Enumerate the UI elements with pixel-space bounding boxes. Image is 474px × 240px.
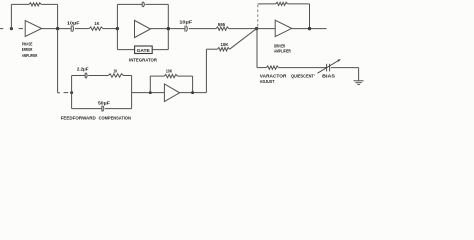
resistor driver feedback <box>276 2 288 5</box>
label 50uF <box>98 100 110 105</box>
label 10uF <box>67 20 80 25</box>
label 10uF 2 <box>179 20 192 25</box>
label PHASE ERROR AMPLIFIER <box>22 41 38 58</box>
varactor trimmer plates <box>327 64 330 72</box>
wire 555 to node <box>229 28 257 30</box>
wire cap to 1K <box>75 28 89 30</box>
wire feedback right vertical <box>57 4 59 28</box>
node driver output junction <box>308 27 311 30</box>
svg-text:AMPLIFIER: AMPLIFIER <box>274 48 291 53</box>
svg-text:ADJUST: ADJUST <box>260 79 275 84</box>
label FEEDFORWARD COMPENSATION <box>61 115 131 120</box>
resistor phase-amp feedback <box>29 3 41 6</box>
label 10K summing <box>221 42 230 47</box>
wire ff top branch left <box>72 75 85 77</box>
wire feedback left vertical <box>10 4 12 28</box>
wire input dash left edge <box>0 28 3 30</box>
resistor 2K R5 <box>108 74 123 77</box>
capacitor 10uF coupling <box>71 26 73 32</box>
wire phase amp output <box>42 28 71 30</box>
wire integrator gate-loop left vertical <box>116 29 118 50</box>
wire ff-output vertical up <box>205 49 207 92</box>
svg-text:555: 555 <box>218 22 226 27</box>
wire diagonal 10K to node <box>230 29 257 50</box>
svg-text:INTEGRATOR: INTEGRATOR <box>129 57 158 62</box>
resistor 10K summing R3 <box>217 48 229 51</box>
svg-text:10μF: 10μF <box>179 20 192 25</box>
label INTEGRATOR <box>129 57 158 62</box>
label 555 <box>218 22 226 27</box>
wire ff feedback left vertical <box>149 76 151 93</box>
wire phase-out vertical down <box>57 29 59 93</box>
op-amp integrator U2 <box>135 20 151 37</box>
wire ff feedback top left <box>150 75 164 77</box>
op-amp driver amplifier U3 <box>275 20 292 36</box>
wire driver feedback top right <box>288 3 310 5</box>
node summing junction <box>255 27 258 30</box>
op-amp phase error amplifier U1 <box>25 21 41 37</box>
label VARACTOR QUIESCENT BIAS <box>260 74 335 79</box>
node ff network input junction <box>70 91 73 94</box>
wire integrator output <box>150 28 184 30</box>
wire feedback top left <box>11 3 29 5</box>
wire ff feedback right vertical <box>192 76 194 93</box>
label 1K <box>94 21 100 26</box>
node phase amp input junction <box>10 27 13 30</box>
svg-text:VARACTOR: VARACTOR <box>260 74 287 79</box>
svg-text:10μF: 10μF <box>67 20 80 25</box>
wire ff bottom branch right <box>105 108 132 110</box>
svg-text:10K: 10K <box>166 69 172 74</box>
label DRIVER AMPLIFIER <box>274 43 291 53</box>
wire integrator cap-loop top right <box>145 3 168 5</box>
wire ff input corner stub <box>58 92 60 94</box>
wire bias resistor to varactor <box>279 67 327 69</box>
svg-text:1K: 1K <box>94 21 100 26</box>
svg-text:FEEDFORWARD: FEEDFORWARD <box>61 115 97 120</box>
capacitor integrator feedback <box>142 2 144 7</box>
wire ff amp output <box>180 92 207 94</box>
wire 1K to integrator <box>103 28 117 30</box>
wire driver feedback left vertical dashed <box>257 4 259 27</box>
label 2.2uF <box>77 66 89 71</box>
wire corner to 10K <box>206 48 217 50</box>
wire bias vertical from node <box>256 29 258 68</box>
wire integrator cap-loop top left <box>117 3 141 5</box>
op-amp feedforward U4 <box>164 84 179 102</box>
wire box to gate-loop right <box>152 49 168 51</box>
gate box GATE <box>135 46 153 54</box>
svg-text:50μF: 50μF <box>98 100 110 105</box>
label ADJUST <box>260 79 275 84</box>
wire 2K to rect right <box>123 75 131 77</box>
resistor bias R4 <box>266 66 278 69</box>
resistor 10K ff feedback R6 <box>164 74 177 77</box>
wire bias corner to resistor <box>257 67 266 69</box>
wire integrator gate-loop right vertical <box>167 29 169 50</box>
wire ff input dash <box>64 92 69 94</box>
svg-text:ERROR: ERROR <box>22 47 33 52</box>
ground symbol <box>354 81 364 85</box>
capacitor 2.2uF <box>85 73 87 79</box>
wire driver feedback right vertical <box>309 4 311 29</box>
wire ff rect right vertical <box>131 76 133 109</box>
node integrator output junction <box>167 27 170 30</box>
svg-text:10K: 10K <box>221 42 230 47</box>
svg-text:2K: 2K <box>114 68 118 73</box>
label 2K <box>114 68 118 73</box>
wire input dash segment <box>19 28 23 30</box>
label 10K ff <box>166 69 172 74</box>
resistor 1K R1 <box>89 27 103 30</box>
svg-text:BIAS: BIAS <box>322 74 335 79</box>
svg-text:GATE: GATE <box>137 48 150 53</box>
svg-text:AMPLIFIER: AMPLIFIER <box>22 53 38 58</box>
capacitor 10uF after integrator <box>185 26 187 32</box>
wire 2.2uF to 2K <box>88 75 108 77</box>
svg-text:2.2μF: 2.2μF <box>77 66 89 71</box>
node phase amp output junction <box>56 27 59 30</box>
svg-text:PHASE: PHASE <box>22 41 33 46</box>
wire cap to 555 <box>189 28 216 30</box>
wire integrator cap-loop right vertical <box>167 4 169 28</box>
wire ground vertical <box>358 68 360 81</box>
node ff output junction <box>191 91 194 94</box>
wire gate-loop to box <box>117 49 134 51</box>
wire ff bottom branch left <box>72 108 102 110</box>
svg-text:QUIESCENT’: QUIESCENT’ <box>291 74 315 79</box>
wire feedback top right <box>41 3 57 5</box>
svg-text:COMPENSATION: COMPENSATION <box>99 115 131 120</box>
wire driver feedback top left <box>258 3 276 5</box>
wire ff feedback top right <box>177 75 192 77</box>
wire ff rect output to amp <box>132 92 165 94</box>
node integrator input junction <box>116 27 119 30</box>
wire driver output <box>292 28 327 30</box>
varactor adjust arrow <box>317 59 340 73</box>
resistor 555 R2 <box>216 27 229 30</box>
wire integrator cap-loop left vertical <box>116 4 118 28</box>
wire ff rect left vertical <box>71 76 73 109</box>
capacitor 50uF <box>102 106 104 112</box>
wire node to driver input <box>257 28 276 30</box>
wire varactor to ground corner <box>331 67 359 69</box>
node ff feedback tap junction <box>149 91 152 94</box>
